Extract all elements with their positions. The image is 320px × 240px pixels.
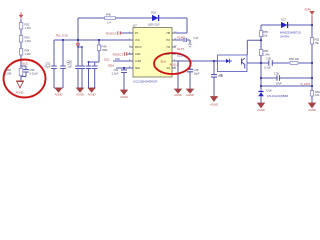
- svg-text:C39: C39: [274, 72, 279, 76]
- svg-text:1.04k: 1.04k: [263, 52, 270, 56]
- svg-text:SDA: SDA: [135, 67, 140, 70]
- svg-text:SLS: SLS: [22, 61, 28, 65]
- svg-text:C54: C54: [67, 59, 72, 63]
- svg-text:HO: HO: [166, 39, 170, 42]
- svg-text:R56 10k: R56 10k: [289, 57, 300, 61]
- svg-text:AGND: AGND: [186, 93, 194, 97]
- svg-text:UCC256404DRGR: UCC256404DRGR: [133, 79, 157, 83]
- svg-text:D16: D16: [151, 11, 156, 15]
- svg-text:SLBO: SLBO: [177, 36, 186, 40]
- svg-text:AGND: AGND: [16, 91, 24, 95]
- svg-text:HS: HS: [167, 46, 171, 49]
- svg-text:HOL: HOL: [165, 53, 171, 56]
- svg-text:ROSC2: ROSC2: [113, 53, 124, 57]
- svg-text:R40: R40: [106, 13, 111, 17]
- svg-text:AQ: AQ: [167, 67, 171, 70]
- svg-text:AGND: AGND: [76, 93, 84, 97]
- svg-text:AGND: AGND: [257, 108, 265, 112]
- svg-text:LED-CLR: LED-CLR: [148, 22, 160, 26]
- svg-text:AGND: AGND: [55, 93, 63, 97]
- svg-text:SLA: SLA: [160, 60, 166, 64]
- svg-text:ATL431AIQDBZR: ATL431AIQDBZR: [267, 94, 288, 98]
- svg-text:R50: R50: [115, 57, 120, 61]
- svg-text:C45: C45: [218, 74, 223, 78]
- svg-text:768k: 768k: [102, 48, 108, 52]
- svg-text:GND: GND: [135, 53, 141, 56]
- svg-text:0.01uF: 0.01uF: [30, 71, 39, 75]
- svg-text:P24V: P24V: [305, 7, 312, 11]
- svg-text:MMSZ5248BT1G: MMSZ5248BT1G: [280, 31, 301, 35]
- svg-text:PU_3.3V: PU_3.3V: [56, 34, 68, 38]
- svg-text:10k: 10k: [263, 33, 268, 37]
- svg-text:2.2uF: 2.2uF: [112, 71, 119, 75]
- svg-text:SDA: SDA: [108, 64, 114, 68]
- svg-text:SL7X: SL7X: [177, 47, 184, 51]
- svg-text:1.0M: 1.0M: [25, 39, 32, 43]
- svg-text:ROSC1: ROSC1: [106, 31, 117, 35]
- svg-text:1.0M: 1.0M: [25, 26, 32, 30]
- svg-text:10pF: 10pF: [194, 71, 200, 75]
- svg-text:D18: D18: [267, 89, 272, 93]
- svg-text:VCC: VCC: [135, 39, 140, 42]
- svg-text:AGND: AGND: [174, 93, 182, 97]
- svg-text:LLSB: LLSB: [135, 60, 141, 63]
- svg-text:75k: 75k: [315, 41, 320, 45]
- svg-text:DNP: DNP: [276, 82, 282, 86]
- svg-text:1.0M: 1.0M: [25, 52, 32, 56]
- svg-text:24V/5%: 24V/5%: [280, 34, 290, 38]
- svg-text:AGND: AGND: [210, 103, 218, 107]
- svg-text:0.1uF: 0.1uF: [264, 66, 271, 70]
- svg-text:S_AKS: S_AKS: [300, 82, 310, 86]
- svg-text:U7: U7: [133, 23, 137, 27]
- svg-text:D17: D17: [281, 17, 286, 21]
- svg-text:C47: C47: [194, 36, 199, 40]
- svg-text:10k: 10k: [315, 93, 320, 97]
- svg-text:SCL: SCL: [104, 58, 110, 62]
- svg-text:HB: HB: [167, 32, 171, 35]
- svg-text:1.0M: 1.0M: [5, 71, 12, 75]
- svg-text:AGND: AGND: [120, 95, 128, 99]
- svg-text:SL10: SL10: [177, 54, 184, 58]
- svg-text:AGND: AGND: [88, 93, 96, 97]
- svg-text:RVCC: RVCC: [135, 46, 142, 49]
- svg-text:PV: PV: [135, 32, 139, 35]
- svg-text:2.4: 2.4: [107, 21, 111, 25]
- svg-text:AGND: AGND: [308, 108, 316, 112]
- svg-text:47pF: 47pF: [44, 65, 50, 69]
- svg-text:.1uF: .1uF: [67, 65, 73, 69]
- svg-text:C38: C38: [266, 57, 271, 61]
